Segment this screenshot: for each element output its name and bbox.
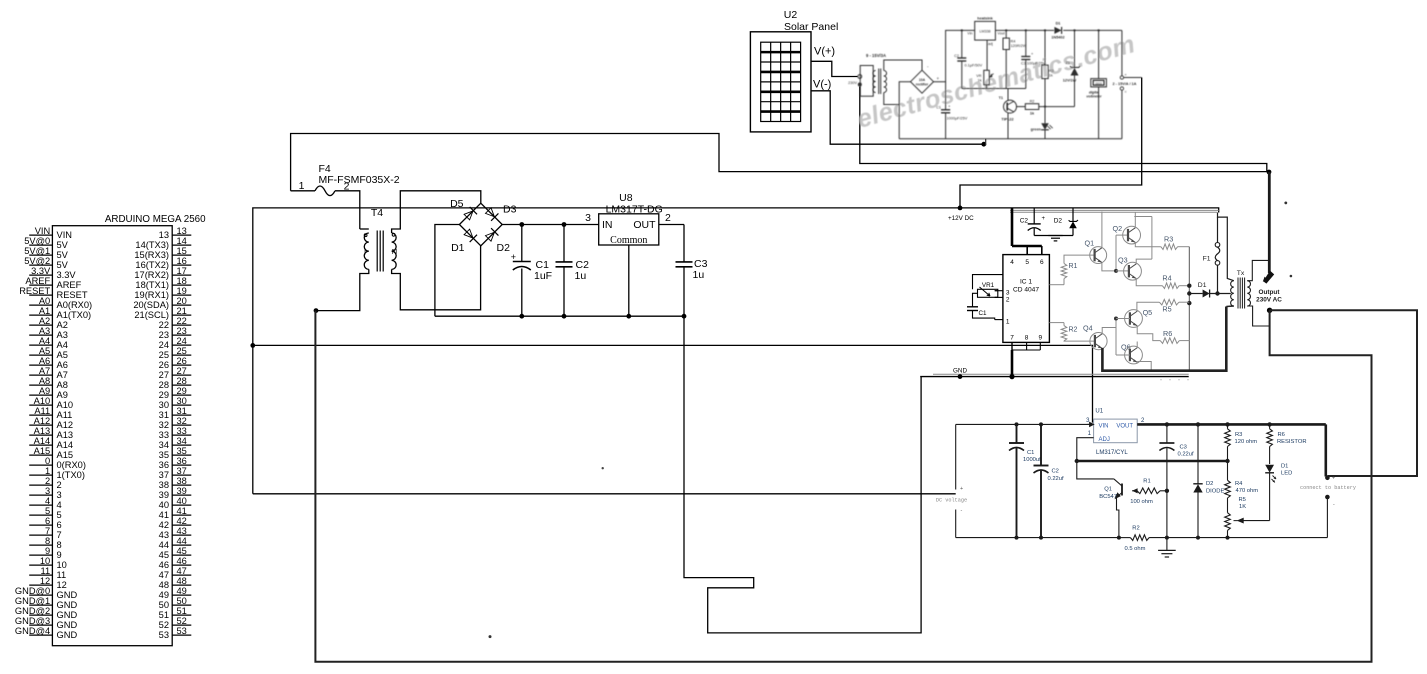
svg-text:8: 8 <box>57 540 62 550</box>
svg-text:A4: A4 <box>57 340 68 350</box>
svg-text:22: 22 <box>159 320 169 330</box>
battery charger top rail <box>956 423 1091 425</box>
svg-text:AREF: AREF <box>57 280 82 290</box>
wire controller secondary top to rectifier <box>884 60 922 71</box>
svg-text:10A: 10A <box>919 78 926 82</box>
battery charger DC input rail left <box>955 424 957 489</box>
pin lead left A9 <box>29 394 52 396</box>
svg-text:A3: A3 <box>57 330 68 340</box>
pin lead right 49 <box>172 594 191 596</box>
diode D5 (top-left arm) <box>463 207 477 221</box>
diode D2 (bottom-right arm) <box>485 228 499 242</box>
svg-text:47: 47 <box>159 570 169 580</box>
pin lead left A7 <box>29 374 52 376</box>
capacitor C3 0.22uf (charger) <box>1166 424 1168 443</box>
svg-text:12: 12 <box>57 580 67 590</box>
wire output to battery + (right loop) <box>1270 310 1417 476</box>
junction node Tx output / mains net <box>1267 170 1272 175</box>
pin lead left 5V@1 <box>29 254 52 256</box>
svg-text:A1: A1 <box>39 306 50 316</box>
svg-text:15(RX3): 15(RX3) <box>134 250 169 260</box>
ground symbol (inverter) <box>1034 235 1073 237</box>
svg-text:5V: 5V <box>57 250 69 260</box>
pin lead left 5 <box>29 514 52 516</box>
diode D1 (inverter output) <box>1189 293 1202 295</box>
potentiometer VR 1k (controller) <box>984 70 990 85</box>
svg-text:+: + <box>1332 476 1335 482</box>
wire Q5 emitter / Q6 collector to R6 <box>1137 326 1160 341</box>
pin lead left GND@0 <box>29 594 52 596</box>
base bus Q5/Q6 <box>1115 319 1117 356</box>
svg-text:120R/2W: 120R/2W <box>1011 44 1027 48</box>
svg-text:R2: R2 <box>1132 526 1139 532</box>
svg-text:LM317T-DG: LM317T-DG <box>606 204 663 216</box>
wire R5 wiper to LED cathode <box>1242 520 1270 522</box>
svg-text:31: 31 <box>177 406 187 416</box>
pin lead left A15 <box>29 454 52 456</box>
svg-text:43: 43 <box>159 530 169 540</box>
svg-text:A14: A14 <box>57 440 74 450</box>
pin lead right 15 <box>172 254 191 256</box>
svg-text:41: 41 <box>159 510 169 520</box>
svg-text:28: 28 <box>177 376 187 386</box>
pin lead left GND@4 <box>29 634 52 636</box>
IC1 left pin stubs <box>995 290 1003 292</box>
svg-text:120 ohm: 120 ohm <box>1235 439 1258 445</box>
wire thick drop to Tx 230V output arrow <box>1268 172 1271 273</box>
svg-text:20(SDA): 20(SDA) <box>133 300 169 310</box>
svg-text:Tx: Tx <box>1237 270 1245 277</box>
pin lead left GND@2 <box>29 614 52 616</box>
svg-text:0.22uf: 0.22uf <box>1178 452 1195 458</box>
diode D2 (charger) <box>1197 424 1199 484</box>
svg-text:A9: A9 <box>57 390 68 400</box>
svg-text:13: 13 <box>177 226 187 236</box>
bridge rectifier diamond <box>459 203 502 246</box>
resistor R4 (inverter) <box>1162 283 1179 289</box>
pin lead left A12 <box>29 424 52 426</box>
svg-text:26: 26 <box>159 360 169 370</box>
svg-text:GND: GND <box>57 620 78 630</box>
svg-text:A10: A10 <box>34 396 51 406</box>
svg-text:VR: VR <box>976 74 982 78</box>
svg-text:53: 53 <box>177 626 187 636</box>
svg-text:33: 33 <box>177 426 187 436</box>
pin lead left 3 <box>29 494 52 496</box>
pin lead right 43 <box>172 534 191 536</box>
svg-text:3: 3 <box>45 486 50 496</box>
svg-text:14(TX3): 14(TX3) <box>135 240 169 250</box>
svg-text:5V@2: 5V@2 <box>24 256 50 266</box>
pin lead left A0 <box>29 304 52 306</box>
transistor Q1 BC547 (charger) <box>1121 484 1123 496</box>
ground symbol (charger) <box>1166 538 1168 551</box>
transformer Tx core <box>1237 278 1239 309</box>
LED D1 (charger) <box>1265 465 1274 473</box>
pin lead right 32 <box>172 424 191 426</box>
pin lead right 51 <box>172 614 191 616</box>
svg-text:21(SCL): 21(SCL) <box>134 310 169 320</box>
T4 polarity dot primary <box>364 234 367 237</box>
svg-text:2: 2 <box>665 212 671 224</box>
svg-text:2 - 15V/A / 1A: 2 - 15V/A / 1A <box>1113 82 1137 86</box>
svg-text:-: - <box>1333 502 1335 508</box>
svg-text:1k: 1k <box>1049 74 1053 78</box>
svg-text:22: 22 <box>177 316 187 326</box>
svg-text:D1: D1 <box>451 242 465 254</box>
wire DC voltage feed to battery charger (left leg) <box>253 493 956 495</box>
svg-text:T4: T4 <box>371 207 383 219</box>
svg-text:19(RX1): 19(RX1) <box>134 290 169 300</box>
svg-text:46: 46 <box>177 556 187 566</box>
svg-text:3.3V: 3.3V <box>57 270 77 280</box>
svg-text:6: 6 <box>57 520 62 530</box>
svg-text:Common: Common <box>610 235 647 246</box>
svg-text:24: 24 <box>159 340 169 350</box>
svg-text:U8: U8 <box>619 192 633 204</box>
svg-text:18: 18 <box>177 276 187 286</box>
svg-text:R2: R2 <box>1069 327 1078 334</box>
svg-text:44: 44 <box>177 536 187 546</box>
svg-text:50: 50 <box>177 596 187 606</box>
pin lead right 27 <box>172 374 191 376</box>
resistor R4 470 ohm (charger) <box>1227 461 1229 480</box>
svg-text:R5: R5 <box>1162 305 1171 314</box>
svg-text:10: 10 <box>40 556 50 566</box>
svg-text:4: 4 <box>1010 259 1014 266</box>
svg-text:4: 4 <box>57 500 62 510</box>
svg-text:A5: A5 <box>39 346 50 356</box>
svg-text:9: 9 <box>57 550 62 560</box>
svg-text:T1: T1 <box>999 96 1003 100</box>
R3 drop wire <box>1151 217 1153 260</box>
svg-text:R1: R1 <box>1069 263 1078 270</box>
svg-text:R6: R6 <box>1278 432 1285 438</box>
svg-text:7: 7 <box>45 526 50 536</box>
pin lead right 20 <box>172 304 191 306</box>
svg-text:41: 41 <box>177 506 187 516</box>
junction R3 (charger) <box>1225 422 1229 426</box>
svg-text:A11: A11 <box>34 406 50 416</box>
wire U8 Common to DC- rail <box>628 245 630 316</box>
stray dot 1 <box>489 635 492 638</box>
svg-text:0.22uf: 0.22uf <box>1048 476 1065 482</box>
svg-text:14: 14 <box>177 236 187 246</box>
svg-text:+: + <box>1125 73 1127 77</box>
svg-text:A0: A0 <box>39 296 50 306</box>
svg-text:A2: A2 <box>57 320 68 330</box>
LED green (controller) <box>1044 107 1046 124</box>
svg-text:Q1: Q1 <box>1085 239 1095 248</box>
pin lead right 17 <box>172 274 191 276</box>
svg-text:C1: C1 <box>1027 450 1034 456</box>
junction R6 (charger) <box>1267 422 1271 426</box>
svg-text:+: + <box>937 76 940 81</box>
wire Tx secondary top to output <box>1247 260 1268 280</box>
resistor R6 RESISTOR (charger) <box>1269 424 1271 428</box>
svg-text:52: 52 <box>159 620 169 630</box>
junction +12V rail to DC voltage feed <box>250 343 255 348</box>
resistor R4 120R/2W (controller) <box>1005 29 1007 31</box>
wire from fuse F4 up and across to Tx output net <box>291 134 1267 191</box>
stray dot 4 <box>1290 275 1293 278</box>
svg-text:A1(TX0): A1(TX0) <box>57 310 92 320</box>
inverter image bottom border <box>933 373 1189 375</box>
svg-text:42: 42 <box>177 516 187 526</box>
controller 10A rectifier diamond <box>911 70 934 93</box>
svg-text:GND: GND <box>57 630 78 640</box>
pin lead left A5 <box>29 354 52 356</box>
pin lead right 28 <box>172 384 191 386</box>
svg-text:3: 3 <box>1006 290 1010 297</box>
svg-text:44: 44 <box>159 540 169 550</box>
svg-text:10: 10 <box>57 560 67 570</box>
svg-text:31: 31 <box>159 410 169 420</box>
pin lead right 13 <box>172 234 191 236</box>
resistor R6 (inverter) <box>1160 338 1179 344</box>
svg-text:V(+): V(+) <box>814 46 835 58</box>
svg-text:R4: R4 <box>1162 274 1171 283</box>
base bus Q2/Q3 <box>1115 235 1117 271</box>
svg-text:R6: R6 <box>1163 329 1172 338</box>
resistor R5 (inverter) <box>1159 299 1179 305</box>
junction C3 / gnd drop <box>682 314 687 319</box>
capacitor C2 0.1uF/50V (controller) <box>961 29 963 31</box>
transformer Tx primary winding <box>1231 281 1234 306</box>
svg-text:A9: A9 <box>39 386 50 396</box>
pin lead right 35 <box>172 454 191 456</box>
svg-text:2: 2 <box>1006 297 1010 304</box>
svg-text:52: 52 <box>177 616 187 626</box>
svg-text:C3: C3 <box>1180 445 1187 451</box>
svg-text:Q3: Q3 <box>1118 256 1128 265</box>
resistor R2 1k (controller) <box>1017 106 1026 108</box>
wire rectifier plus up to LM338 Vin <box>934 30 975 81</box>
junction output node <box>1267 308 1272 313</box>
pin lead left A13 <box>29 434 52 436</box>
capacitor C3 1u (supply) <box>683 225 685 262</box>
pin lead left 9 <box>29 554 52 556</box>
pin lead left A6 <box>29 364 52 366</box>
svg-text:45: 45 <box>159 550 169 560</box>
svg-text:5: 5 <box>57 510 62 520</box>
regulator U1 LM317/CYL body <box>1094 419 1138 443</box>
svg-text:-: - <box>961 508 963 514</box>
pin lead right 50 <box>172 604 191 606</box>
wire Q6 emitter to emitter rail <box>1137 362 1151 371</box>
pin lead right 44 <box>172 544 191 546</box>
svg-text:GND: GND <box>953 368 967 375</box>
controller output terminals 2-15V <box>1121 30 1123 75</box>
U1 VOUT thick rail <box>1137 423 1326 426</box>
capacitor C1 1uF (polarized) <box>521 225 523 262</box>
transformer T4 primary winding <box>360 228 369 230</box>
svg-text:40: 40 <box>177 496 187 506</box>
svg-text:48: 48 <box>177 576 187 586</box>
svg-text:4: 4 <box>45 496 50 506</box>
svg-text:Q5: Q5 <box>1143 308 1153 317</box>
wire output return to bottom rail <box>315 310 1371 662</box>
svg-text:A11: A11 <box>57 410 73 420</box>
svg-text:=: = <box>1125 90 1127 94</box>
svg-text:36: 36 <box>177 456 187 466</box>
output node column <box>1188 247 1190 370</box>
svg-text:U2: U2 <box>784 9 798 21</box>
fuse F1 <box>1217 217 1219 243</box>
wire controller + output to exit <box>1124 77 1142 79</box>
pin lead left 7 <box>29 534 52 536</box>
svg-text:1N5402: 1N5402 <box>1051 36 1064 40</box>
wire Q1 collector to rail <box>1101 212 1103 249</box>
svg-text:VOUT: VOUT <box>1116 424 1133 430</box>
svg-text:8: 8 <box>45 536 50 546</box>
pin lead left 11 <box>29 574 52 576</box>
wire U1 VIN feed (long horizontal at y=345) <box>253 345 1093 422</box>
svg-text:R3: R3 <box>1049 69 1054 73</box>
IC1 CD 4047 body <box>1003 255 1050 343</box>
battery + terminal <box>1325 476 1330 481</box>
svg-text:33: 33 <box>159 430 169 440</box>
svg-text:5: 5 <box>1025 259 1029 266</box>
svg-text:A7: A7 <box>57 370 68 380</box>
emitter rail to Tx primary (thick) <box>1102 307 1226 371</box>
svg-text:GND: GND <box>57 600 78 610</box>
svg-text:R4: R4 <box>1011 40 1016 44</box>
svg-text:A5: A5 <box>57 350 68 360</box>
svg-text:R1: R1 <box>1143 479 1150 485</box>
pin lead right 42 <box>172 524 191 526</box>
svg-text:35: 35 <box>159 450 169 460</box>
svg-text:9: 9 <box>1038 335 1042 342</box>
wire bridge right vertex (DC+) to U8 IN <box>502 224 599 226</box>
svg-text:23: 23 <box>159 330 169 340</box>
svg-text:VR1: VR1 <box>982 282 995 289</box>
svg-text:I: I <box>364 248 366 257</box>
pin lead right 37 <box>172 474 191 476</box>
pin lead left 4 <box>29 504 52 506</box>
svg-text:adj: adj <box>988 42 993 46</box>
svg-text:AREF: AREF <box>25 276 50 286</box>
wire Q3 collector bracket <box>1136 259 1152 264</box>
svg-text:5: 5 <box>45 506 50 516</box>
pin lead left GND@1 <box>29 604 52 606</box>
svg-text:V(-): V(-) <box>813 79 831 91</box>
svg-text:A13: A13 <box>57 430 74 440</box>
svg-text:9 - 15V/3A: 9 - 15V/3A <box>866 53 886 58</box>
svg-text:12: 12 <box>40 576 50 586</box>
regulator U8 LM317T-DG body <box>599 214 659 245</box>
pin lead right 31 <box>172 414 191 416</box>
svg-text:ARDUINO MEGA 2560: ARDUINO MEGA 2560 <box>105 214 206 225</box>
svg-text:15: 15 <box>177 246 187 256</box>
pin lead right 24 <box>172 344 191 346</box>
svg-text:16: 16 <box>177 256 187 266</box>
svg-text:D1: D1 <box>1056 22 1061 26</box>
svg-text:+: + <box>1042 216 1046 222</box>
svg-text:D1: D1 <box>1198 282 1207 289</box>
collector bracket above Q2 to R3 drop <box>1134 216 1152 218</box>
pin lead left 10 <box>29 564 52 566</box>
junction C3 (charger) <box>1165 422 1169 426</box>
ADJ wire and thick adj rail <box>1077 438 1094 461</box>
svg-text:GND@0: GND@0 <box>15 586 50 596</box>
pin lead left 5V@0 <box>29 244 52 246</box>
resistor R3 (inverter) <box>1161 244 1178 250</box>
svg-text:C2: C2 <box>954 54 959 58</box>
wire gnd link from supply rail down (zigzag path) <box>684 316 921 633</box>
pin lead right 53 <box>172 634 191 636</box>
svg-text:VIN: VIN <box>35 226 51 236</box>
svg-text:A6: A6 <box>57 360 68 370</box>
svg-text:Z1: Z1 <box>1066 61 1070 65</box>
svg-text:Output: Output <box>1259 289 1281 296</box>
svg-text:A14: A14 <box>34 436 51 446</box>
svg-text:D2: D2 <box>1206 481 1213 487</box>
pin lead left A2 <box>29 324 52 326</box>
resistor R3 120 ohm (charger) <box>1225 429 1231 447</box>
svg-text:RESISTOR: RESISTOR <box>1277 439 1307 445</box>
svg-text:25: 25 <box>177 346 187 356</box>
svg-text:38: 38 <box>177 476 187 486</box>
svg-text:100 ohm: 100 ohm <box>1130 499 1153 505</box>
pin lead right 48 <box>172 584 191 586</box>
svg-text:49: 49 <box>159 590 169 600</box>
pin lead right 52 <box>172 624 191 626</box>
junction C1 top (charger) <box>1015 422 1019 426</box>
svg-text:A8: A8 <box>39 376 50 386</box>
svg-text:connect to battery: connect to battery <box>1300 485 1356 491</box>
svg-text:6: 6 <box>1040 259 1044 266</box>
svg-text:1000µF/25V: 1000µF/25V <box>947 117 968 121</box>
diode D3 (top-right arm) <box>485 207 499 221</box>
svg-text:48: 48 <box>159 580 169 590</box>
svg-text:F1: F1 <box>1203 256 1211 263</box>
svg-text:18(TX1): 18(TX1) <box>135 280 169 290</box>
svg-text:49: 49 <box>177 586 187 596</box>
stray dot 3 <box>1284 202 1287 205</box>
pin lead left 1 <box>29 474 52 476</box>
wire charge controller + output to +12V rail <box>960 78 1142 208</box>
svg-text:2: 2 <box>57 480 62 490</box>
wire Q3 emitter to R4 <box>1136 278 1162 285</box>
capacitor C2 0.22uf (charger) <box>1040 424 1042 465</box>
pin lead left A11 <box>29 414 52 416</box>
svg-text:2: 2 <box>45 476 50 486</box>
pin lead left 5V@2 <box>29 264 52 266</box>
svg-text:32: 32 <box>177 416 187 426</box>
svg-text:1: 1 <box>45 466 50 476</box>
svg-text:A2: A2 <box>39 316 50 326</box>
svg-text:rectifier: rectifier <box>916 83 929 87</box>
svg-text:OUT: OUT <box>633 219 656 231</box>
pin lead left 0 <box>29 464 52 466</box>
svg-text:38: 38 <box>159 480 169 490</box>
zener Z1 12V/1W (controller) <box>1073 29 1075 31</box>
pin lead left 3.3V <box>29 274 52 276</box>
junction D1 / F1 <box>1215 291 1219 295</box>
controller adj rail <box>962 88 1026 90</box>
wire IC1 pin7 to GND rail (thick) <box>1011 350 1014 377</box>
pin lead right 21 <box>172 314 191 316</box>
svg-text:11: 11 <box>57 570 67 580</box>
pin lead right 36 <box>172 464 191 466</box>
svg-text:27: 27 <box>177 366 187 376</box>
svg-text:26: 26 <box>177 356 187 366</box>
svg-text:51: 51 <box>159 610 169 620</box>
pin lead right 26 <box>172 364 191 366</box>
resistor R3 1k (controller) <box>1044 29 1046 31</box>
svg-text:GND@2: GND@2 <box>15 606 50 616</box>
